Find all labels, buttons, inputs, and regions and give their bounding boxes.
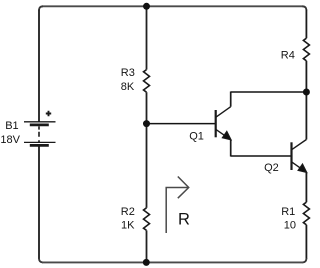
wire middle vertical top — [146, 6, 148, 69]
wire Q2 emitter down to R1 — [305, 172, 307, 202]
wire R4 bottom to junction — [305, 61, 307, 92]
svg-text:8K: 8K — [121, 81, 135, 93]
battery plus sign — [46, 111, 51, 116]
current arrow R — [166, 177, 189, 234]
wire corner bottom-left — [39, 258, 43, 262]
svg-text:R1: R1 — [281, 206, 295, 218]
junction node Q1 base / divider — [143, 120, 150, 127]
svg-text:B1: B1 — [5, 120, 18, 132]
wire bottom rail — [42, 261, 303, 263]
wire left rail upper (to battery) — [38, 10, 40, 122]
battery B1 — [24, 111, 56, 146]
junction node bottom — [143, 259, 150, 266]
svg-text:R: R — [178, 211, 190, 229]
resistor R3 — [144, 70, 150, 93]
svg-text:Q2: Q2 — [264, 162, 279, 174]
wire middle vertical between R3 and R2 — [146, 92, 148, 208]
wire right rail top (corner to R4) — [305, 10, 307, 39]
wire Q1 emitter to Q2 base horizontal — [231, 155, 292, 157]
wire Q1 base — [147, 123, 216, 125]
wire corner top-right — [302, 6, 306, 10]
wire Q1 collector vertical — [230, 92, 232, 107]
resistor R2 — [144, 208, 150, 231]
svg-text:R2: R2 — [121, 206, 135, 218]
wire R2 bottom to bottom rail — [146, 230, 148, 262]
junction node top — [143, 3, 150, 10]
wire right rail bottom (R1 to corner) — [305, 225, 307, 259]
wire Q1 emitter vertical — [230, 140, 232, 157]
svg-text:10: 10 — [284, 220, 296, 232]
resistor R1 — [303, 202, 309, 225]
svg-text:R4: R4 — [281, 50, 295, 62]
svg-text:1K: 1K — [121, 220, 135, 232]
wire corner bottom-right — [302, 258, 306, 262]
wire left rail lower (battery to bottom) — [38, 145, 40, 259]
junction node collector rail — [303, 89, 310, 96]
resistor R4 — [303, 38, 309, 61]
wire Q1 collector horizontal to junction — [231, 91, 307, 93]
wire junction down to Q2 collector — [305, 92, 307, 140]
wire top rail — [42, 5, 303, 7]
transistor Q2 — [292, 140, 307, 173]
svg-text:Q1: Q1 — [189, 131, 204, 143]
svg-text:18V: 18V — [0, 134, 20, 146]
wire corner top-left — [39, 6, 43, 10]
transistor Q1 — [216, 107, 231, 140]
svg-text:R3: R3 — [121, 67, 135, 79]
